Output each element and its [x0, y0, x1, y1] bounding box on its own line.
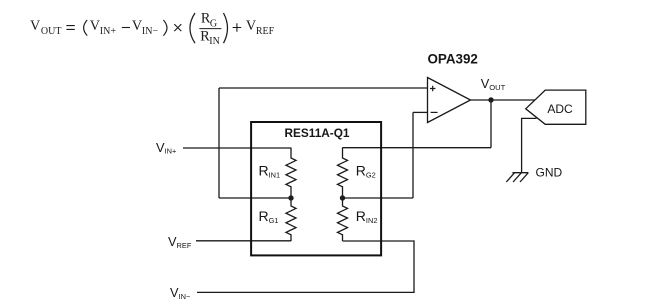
wire tap row to left junction	[219, 197, 291, 199]
svg-text:RIN2: RIN2	[356, 208, 378, 225]
svg-text:RG1: RG1	[259, 208, 279, 225]
wire right junction to inverting vertical	[343, 197, 414, 199]
ground chassis symbol	[506, 173, 528, 182]
svg-text:OPA392: OPA392	[428, 52, 478, 67]
svg-text:IN−: IN−	[142, 26, 159, 37]
wire VREF input	[196, 240, 291, 242]
wire ADC to ground	[522, 118, 537, 172]
svg-text:VREF: VREF	[168, 234, 192, 250]
wire RIN2 bottom to VIN-	[197, 241, 414, 292]
svg-text:VIN−: VIN−	[170, 285, 190, 301]
wire op-amp inverting input	[413, 111, 428, 113]
svg-text:V: V	[30, 18, 41, 34]
svg-text:RIN1: RIN1	[259, 162, 281, 179]
wire vertical to inverting input	[412, 112, 414, 198]
svg-text:ADC: ADC	[547, 102, 573, 116]
wire op-amp output to ADC	[471, 99, 536, 101]
op-amp minus input sign	[431, 111, 438, 113]
svg-text:VIN+: VIN+	[156, 140, 176, 156]
wire feedback vertical from output	[490, 100, 492, 148]
svg-text:G: G	[210, 19, 217, 30]
wire VIN+ input	[183, 147, 291, 149]
svg-text:RES11A-Q1: RES11A-Q1	[285, 126, 350, 140]
resistor RG2	[338, 148, 348, 199]
wire feedback horizontal Vout to RG2 top	[343, 147, 492, 149]
wire op-amp noninverting input	[219, 87, 428, 89]
ADC block pentagon	[526, 90, 586, 124]
resistor RIN1	[286, 148, 296, 199]
equation Vout = (Vin+ - Vin-) x (RG/RIN) + VREF	[30, 11, 275, 47]
op-amp plus input sign	[430, 86, 435, 91]
junction dot left divider	[288, 195, 293, 200]
svg-text:IN+: IN+	[100, 26, 117, 37]
svg-text:VOUT: VOUT	[481, 76, 506, 92]
resistor RG1	[286, 198, 296, 241]
junction dot Vout node	[488, 97, 493, 102]
op-amp U1 OPA392 triangle	[428, 78, 471, 123]
svg-text:GND: GND	[536, 165, 563, 179]
svg-text:RG2: RG2	[356, 162, 376, 179]
junction dot right divider	[340, 195, 345, 200]
svg-text:REF: REF	[256, 26, 275, 37]
resistor RIN2	[338, 198, 348, 241]
svg-text:OUT: OUT	[41, 26, 62, 37]
svg-text:IN: IN	[209, 36, 220, 47]
wire vertical from +input down to left divider tap	[218, 88, 220, 198]
RES11A-Q1 package box	[251, 122, 381, 255]
